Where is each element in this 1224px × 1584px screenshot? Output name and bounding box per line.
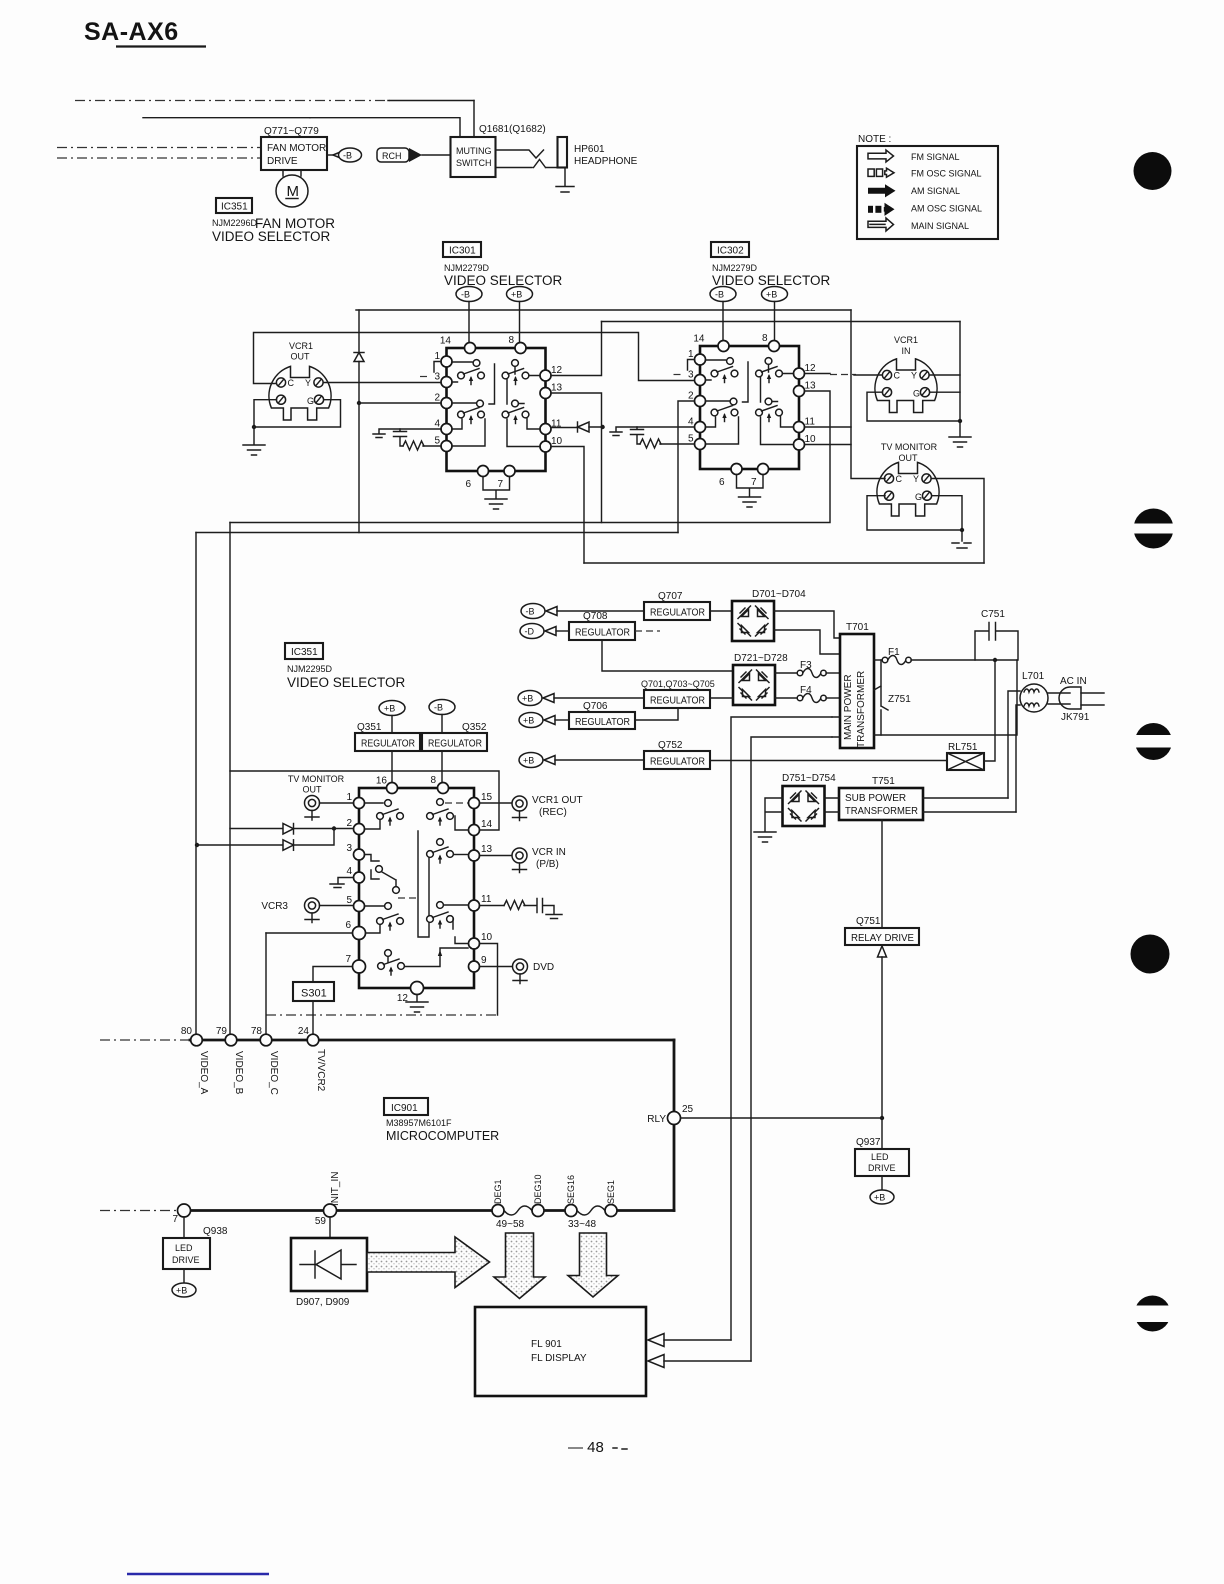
svg-text:M: M bbox=[287, 183, 300, 200]
resistor capacitor at pin 11 bbox=[480, 899, 563, 919]
pin SEG16 bbox=[565, 1205, 577, 1217]
pin 59 INIT_IN bbox=[324, 1204, 337, 1217]
jack VCR IN (P/B) rca bbox=[480, 847, 566, 873]
svg-text:8: 8 bbox=[430, 775, 436, 786]
node -B rail to Q707 bbox=[521, 604, 644, 619]
display FL901 FL DISPLAY bbox=[475, 1307, 646, 1396]
node -B above IC301 bbox=[456, 287, 482, 343]
svg-text:Q708: Q708 bbox=[583, 611, 608, 622]
node junction bbox=[960, 528, 964, 532]
node +B above IC301 bbox=[507, 287, 533, 343]
connector VCR1 OUT s-video bbox=[269, 341, 331, 420]
rectifier D721~D728 bbox=[733, 653, 788, 705]
label NJM2279D video selector 2 bbox=[712, 263, 831, 288]
pin DEG10 bbox=[532, 1205, 544, 1217]
wire bus y523 bbox=[230, 391, 830, 523]
wire IC302 pin12 to VCR1 IN C bbox=[805, 373, 831, 375]
node +B above Q351 bbox=[379, 701, 405, 734]
wire VCR1 OUT enclosure bbox=[254, 333, 695, 384]
wire top rail 2 solid bbox=[310, 118, 460, 137]
registration mark 3 bbox=[1130, 723, 1178, 760]
svg-text:15: 15 bbox=[481, 792, 493, 803]
wire IC301 pin1 stub bbox=[434, 362, 441, 373]
rectifier D751~D754 bbox=[782, 773, 836, 826]
svg-text:+B: +B bbox=[874, 1193, 885, 1203]
svg-text:78: 78 bbox=[251, 1026, 263, 1037]
pin 7 bbox=[178, 1204, 191, 1217]
svg-text:INIT_IN: INIT_IN bbox=[330, 1172, 341, 1206]
svg-text:-B: -B bbox=[715, 290, 724, 300]
svg-text:VIDEO_A: VIDEO_A bbox=[198, 1051, 209, 1095]
connector AC IN plug bbox=[1048, 676, 1104, 723]
svg-text:C751: C751 bbox=[981, 609, 1005, 620]
svg-text:10: 10 bbox=[481, 932, 493, 943]
rectifier D701~D704 bbox=[732, 589, 806, 641]
wire TV MONITOR OUT pin2 loop bbox=[867, 496, 962, 541]
IC351 interior switches bbox=[365, 799, 469, 975]
node junction bbox=[958, 419, 962, 423]
svg-text:RL751: RL751 bbox=[948, 742, 978, 753]
wire vertical x731 FL feed bbox=[731, 717, 832, 1340]
wire Q708 drop to lower bridge bbox=[602, 640, 733, 671]
svg-text:FM OSC SIGNAL: FM OSC SIGNAL bbox=[911, 169, 982, 179]
pin RLY 25 bbox=[668, 1112, 681, 1125]
registration mark 2 bbox=[1128, 509, 1179, 549]
legend FM SIGNAL open arrow bbox=[868, 150, 894, 162]
wire vertical x266 video_c bbox=[265, 933, 267, 1035]
node +B rail to Q706 bbox=[519, 713, 569, 728]
legend MAIN SIGNAL bbox=[868, 218, 894, 231]
svg-text:MICROCOMPUTER: MICROCOMPUTER bbox=[386, 1129, 499, 1143]
diode D301 on vertical rail bbox=[354, 353, 364, 362]
svg-text:DVD: DVD bbox=[533, 962, 554, 973]
svg-text:IN: IN bbox=[902, 346, 911, 356]
wire FL feed arrowheads bbox=[648, 1334, 751, 1368]
node RCH signal tag bbox=[377, 148, 451, 162]
svg-text:-B: -B bbox=[343, 151, 352, 161]
svg-text:Q751: Q751 bbox=[856, 916, 881, 927]
IC302 boxed label bbox=[711, 242, 749, 257]
wire bottom bus dash-dot left bbox=[100, 1210, 180, 1212]
IC301 boxed label bbox=[443, 242, 481, 257]
IC351 pins right bbox=[469, 798, 480, 809]
title underline bbox=[116, 45, 206, 47]
svg-text:REGULATOR: REGULATOR bbox=[361, 739, 415, 750]
svg-text:NJM2279D: NJM2279D bbox=[712, 263, 758, 273]
svg-text:OUT: OUT bbox=[899, 453, 919, 463]
IC351 pins top bbox=[387, 783, 398, 794]
wire top bus dash-dot left bbox=[100, 1039, 190, 1041]
transistor block Q701,Q703~Q705 regulator bbox=[641, 679, 715, 708]
svg-text:TRANSFORMER: TRANSFORMER bbox=[856, 671, 867, 748]
svg-text:L701: L701 bbox=[1022, 671, 1045, 682]
wire break squiggle 2 bbox=[577, 1206, 605, 1215]
transistor block Q771~Q779 fan motor drive bbox=[261, 126, 327, 170]
wire VCR1 IN pin2 loop bbox=[867, 392, 960, 421]
capacitor + ground network at IC302 pins 4,5 bbox=[610, 427, 695, 448]
svg-text:VCR3: VCR3 bbox=[261, 901, 288, 912]
svg-text:HEADPHONE: HEADPHONE bbox=[574, 156, 638, 167]
svg-text:MAIN SIGNAL: MAIN SIGNAL bbox=[911, 221, 969, 231]
svg-text:LED: LED bbox=[175, 1243, 193, 1253]
svg-text:REGULATOR: REGULATOR bbox=[650, 757, 705, 768]
svg-text:AC IN: AC IN bbox=[1060, 676, 1087, 687]
svg-text:VIDEO SELECTOR: VIDEO SELECTOR bbox=[287, 675, 406, 690]
IC351 pin bottom 12 + ground bbox=[411, 982, 424, 995]
svg-text:RLY: RLY bbox=[647, 1114, 666, 1125]
transistor block Q937 led drive bbox=[855, 1137, 909, 1176]
diode pair feeding pin 2 bbox=[195, 824, 354, 851]
node -B above Q352 bbox=[429, 700, 455, 734]
svg-text:AM SIGNAL: AM SIGNAL bbox=[911, 186, 960, 196]
svg-text:VCR1: VCR1 bbox=[894, 335, 918, 345]
wire vertical x196 video_a bbox=[195, 533, 197, 1035]
svg-text:VIDEO_C: VIDEO_C bbox=[268, 1051, 279, 1095]
svg-text:NOTE :: NOTE : bbox=[858, 134, 891, 145]
wire microcomputer top bus bbox=[190, 1039, 674, 1042]
ground dashes below TV MONITOR OUT bbox=[952, 543, 971, 548]
op-amp IC351 NJM2295D body bbox=[359, 788, 474, 988]
svg-text:TV/VCR2: TV/VCR2 bbox=[315, 1049, 326, 1092]
svg-text:M38957M6101F: M38957M6101F bbox=[386, 1118, 452, 1128]
wire IC302 pin11 to x851 bbox=[805, 426, 852, 428]
svg-text:VCR1: VCR1 bbox=[289, 341, 313, 351]
svg-text:DEG10: DEG10 bbox=[533, 1174, 543, 1204]
svg-text:7: 7 bbox=[345, 954, 351, 965]
label NJM2279D video selector bbox=[444, 263, 563, 288]
wire vertical rail x358 bbox=[358, 310, 360, 533]
svg-text:VIDEO SELECTOR: VIDEO SELECTOR bbox=[444, 273, 563, 288]
svg-text:Q701,Q703~Q705: Q701,Q703~Q705 bbox=[641, 679, 715, 689]
switch S301 bbox=[293, 967, 353, 1035]
capacitor + ground network at IC301 pins 4,5 bbox=[373, 429, 441, 450]
node junction bbox=[252, 425, 256, 429]
transformer T701 main power bbox=[840, 622, 874, 748]
svg-text:NJM2296D: NJM2296D bbox=[212, 218, 258, 228]
label NJM2295D video selector bbox=[287, 664, 406, 690]
svg-text:+B: +B bbox=[511, 290, 522, 300]
wire IC301 pin2 to rail bbox=[359, 402, 441, 404]
svg-text:HP601: HP601 bbox=[574, 144, 605, 155]
svg-text:IC351: IC351 bbox=[221, 202, 248, 213]
transistor block Q706 regulator bbox=[569, 701, 678, 729]
svg-text:SEG16: SEG16 bbox=[566, 1175, 576, 1204]
svg-text:DRIVE: DRIVE bbox=[172, 1255, 200, 1265]
jack DVD rca bbox=[480, 959, 555, 984]
connector TV MONITOR OUT s-video bbox=[877, 442, 939, 516]
svg-text:Q771~Q779: Q771~Q779 bbox=[264, 126, 319, 137]
svg-text:MAIN POWER: MAIN POWER bbox=[843, 674, 854, 740]
svg-text:Q752: Q752 bbox=[658, 740, 683, 751]
svg-text:3: 3 bbox=[346, 843, 352, 854]
ground at IC351 pin4 bbox=[330, 878, 354, 888]
svg-text:DRIVE: DRIVE bbox=[868, 1163, 896, 1173]
pin 24 bbox=[307, 1034, 319, 1046]
wire bridge D701 to T701 bbox=[774, 611, 840, 654]
blue pen mark bottom bbox=[127, 1573, 269, 1575]
pin 80 bbox=[191, 1034, 203, 1046]
IC901 boxed label bbox=[384, 1098, 428, 1115]
svg-text:-B: -B bbox=[434, 703, 443, 713]
svg-text:OUT: OUT bbox=[303, 785, 323, 795]
wire bus y563 bbox=[584, 562, 984, 564]
wire break squiggle bbox=[504, 1206, 532, 1215]
fuse F1 bbox=[874, 647, 1017, 665]
IC351 boxed label (fan motor section) bbox=[216, 198, 252, 213]
wire vertical x601 lower + pin13 bbox=[551, 393, 602, 523]
svg-text:IC302: IC302 bbox=[717, 246, 744, 257]
svg-text:6: 6 bbox=[345, 920, 351, 931]
svg-text:+B: +B bbox=[766, 290, 777, 300]
svg-text:-B: -B bbox=[461, 290, 470, 300]
diode block D907, D909 bbox=[291, 1217, 367, 1308]
wire IC302 pin1 stub bbox=[688, 360, 695, 371]
svg-text:RELAY DRIVE: RELAY DRIVE bbox=[851, 933, 914, 944]
wire D751 left to ground bbox=[765, 798, 783, 831]
svg-text:T701: T701 bbox=[846, 622, 869, 633]
wire L701 left connections bbox=[1008, 691, 1020, 812]
diode D302 pointing left bbox=[551, 422, 605, 432]
svg-text:TV MONITOR: TV MONITOR bbox=[288, 774, 345, 784]
pin DEG1 bbox=[492, 1205, 504, 1217]
label M38957M6101F microcomputer bbox=[386, 1118, 499, 1143]
svg-text:NJM2279D: NJM2279D bbox=[444, 263, 490, 273]
svg-text:IC301: IC301 bbox=[449, 246, 476, 257]
svg-text:+B: +B bbox=[523, 756, 534, 766]
svg-text:NJM2295D: NJM2295D bbox=[287, 664, 333, 674]
wire VCR1 IN Y to enclosure bbox=[930, 374, 961, 376]
transistor block Q707 regulator bbox=[644, 591, 710, 620]
wire VCR1 OUT pin2 loop to ground bbox=[254, 400, 341, 427]
svg-text:SUB POWER: SUB POWER bbox=[845, 793, 906, 804]
svg-text:2: 2 bbox=[346, 818, 352, 829]
svg-text:D907, D909: D907, D909 bbox=[296, 1297, 350, 1308]
svg-text:Q938: Q938 bbox=[203, 1226, 228, 1237]
surge absorber Z751 bbox=[874, 660, 911, 735]
ground VCR1 OUT bbox=[253, 427, 255, 444]
node junction pin2 rail bbox=[357, 401, 361, 405]
node -B at fan motor drive bbox=[327, 148, 362, 162]
svg-text:49~58: 49~58 bbox=[496, 1219, 525, 1230]
wire y735 secondary line bbox=[874, 660, 1017, 735]
node +B below Q937 bbox=[870, 1176, 894, 1204]
motor M751 bbox=[276, 170, 308, 207]
svg-text:59: 59 bbox=[315, 1216, 327, 1227]
transformer T751 sub power bbox=[825, 776, 1017, 820]
IC351 boxed label bbox=[285, 643, 323, 659]
arrow right from D907 to FL bbox=[367, 1237, 490, 1288]
svg-text:+B: +B bbox=[523, 716, 534, 726]
wire rail1 vertical drop to muting switch bbox=[473, 101, 475, 138]
wire T751 bottom to relay drive bbox=[881, 820, 883, 928]
wire vertical x584 + IC301 pin10 bbox=[551, 447, 584, 564]
svg-text:16: 16 bbox=[376, 776, 388, 787]
svg-text:S301: S301 bbox=[301, 988, 327, 1000]
wire Q701 to bridge bbox=[710, 697, 733, 699]
wire Q707 to bridge bbox=[710, 610, 732, 612]
wire top rail 2 bbox=[143, 117, 310, 119]
svg-text:VCR1 OUT: VCR1 OUT bbox=[532, 795, 583, 806]
transistor block Q752 regulator bbox=[644, 740, 710, 769]
NOTE legend box bbox=[857, 134, 998, 239]
svg-text:(REC): (REC) bbox=[539, 807, 567, 818]
fuse F3 bbox=[775, 660, 840, 678]
jack TV MONITOR OUT rca bbox=[288, 774, 354, 820]
svg-text:T751: T751 bbox=[872, 776, 895, 787]
wire bus y533 bbox=[196, 532, 678, 534]
transistor block Q751 relay drive bbox=[845, 916, 919, 945]
wire RLY to relay drive rail bbox=[681, 1117, 883, 1119]
wire top rail 1 (dash-dot) bbox=[75, 100, 390, 102]
registration mark 5 bbox=[1129, 1296, 1177, 1332]
wire top rail y310 bbox=[356, 309, 851, 311]
op-amp IC302 NJM2279D bbox=[688, 333, 816, 507]
transistor block Q351 regulator bbox=[355, 722, 420, 783]
svg-text:D721~D728: D721~D728 bbox=[734, 653, 788, 664]
svg-text:TRANSFORMER: TRANSFORMER bbox=[845, 806, 918, 817]
legend AM OSC SIGNAL bbox=[868, 206, 873, 213]
registration mark 1 bbox=[1134, 152, 1172, 190]
svg-text:REGULATOR: REGULATOR bbox=[650, 608, 705, 619]
node -D rail to Q708 bbox=[520, 624, 569, 639]
svg-text:-B: -B bbox=[526, 607, 535, 617]
svg-text:1: 1 bbox=[346, 792, 352, 803]
svg-text:80: 80 bbox=[181, 1026, 193, 1037]
svg-text:D701~D704: D701~D704 bbox=[752, 589, 806, 600]
wire Q752 to RL751 bbox=[710, 760, 947, 762]
svg-text:Q351: Q351 bbox=[357, 722, 382, 733]
svg-text:LED: LED bbox=[871, 1152, 889, 1162]
svg-text:VIDEO_B: VIDEO_B bbox=[233, 1051, 244, 1095]
svg-text:SA-AX6: SA-AX6 bbox=[84, 18, 179, 46]
svg-text:IC901: IC901 bbox=[391, 1103, 418, 1114]
wire Y pin to IC301 pin3 bbox=[324, 382, 442, 384]
node +B above IC302 bbox=[762, 287, 788, 341]
wire TV MONITOR OUT Y to right bbox=[932, 479, 984, 564]
svg-text:Z751: Z751 bbox=[888, 694, 911, 705]
svg-text:-D: -D bbox=[525, 627, 535, 637]
connector VCR1 IN s-video bbox=[875, 335, 937, 413]
svg-text:+B: +B bbox=[522, 694, 533, 704]
svg-text:MUTING: MUTING bbox=[456, 146, 492, 156]
svg-text:SWITCH: SWITCH bbox=[456, 158, 492, 168]
jack VCR1 OUT (REC) rca bbox=[480, 795, 583, 821]
svg-text:Q937: Q937 bbox=[856, 1137, 881, 1148]
wire fan drive input rail a (dash-dot) bbox=[57, 147, 261, 149]
wire relay drive down with arrow bbox=[878, 946, 887, 1149]
svg-text:D751~D754: D751~D754 bbox=[782, 773, 836, 784]
svg-text:IC351: IC351 bbox=[291, 647, 318, 658]
transistor block Q938 led drive bbox=[163, 1217, 228, 1297]
arrow down SEG to FL bbox=[568, 1233, 618, 1297]
svg-text:FL 901: FL 901 bbox=[531, 1339, 562, 1350]
arrow down DEG to FL bbox=[494, 1233, 545, 1299]
svg-text:REGULATOR: REGULATOR bbox=[575, 628, 630, 639]
wire pin6 to x266 bbox=[266, 932, 353, 934]
connector HP601 headphone jack bbox=[556, 137, 638, 192]
svg-text:FM SIGNAL: FM SIGNAL bbox=[911, 152, 960, 162]
wire x851 rail to TV MONITOR OUT C bbox=[851, 310, 885, 479]
svg-text:FAN MOTOR: FAN MOTOR bbox=[267, 143, 326, 154]
transistor block Q708 regulator bbox=[569, 611, 635, 640]
node +B rail to Q701 bbox=[518, 691, 644, 706]
svg-text:OUT: OUT bbox=[291, 352, 311, 362]
wire Q708 dashes right bbox=[635, 630, 660, 632]
svg-text:Q1681(Q1682): Q1681(Q1682) bbox=[479, 124, 546, 135]
label NJM2296D fan motor video selector bbox=[212, 216, 335, 244]
svg-text:RCH: RCH bbox=[382, 151, 402, 161]
svg-text:VCR IN: VCR IN bbox=[532, 847, 566, 858]
svg-text:13: 13 bbox=[481, 844, 493, 855]
svg-text:JK791: JK791 bbox=[1061, 712, 1090, 723]
transistor block Q1681 muting switch bbox=[451, 124, 546, 177]
wire T701 left taps bbox=[832, 717, 840, 737]
wire muting switch to headphone with contacts bbox=[496, 150, 558, 168]
svg-text:AM OSC SIGNAL: AM OSC SIGNAL bbox=[911, 204, 982, 214]
svg-text:FL DISPLAY: FL DISPLAY bbox=[531, 1353, 587, 1364]
wire IC302 pin10 bbox=[805, 444, 852, 446]
pin 79 bbox=[225, 1034, 237, 1046]
wire microcomputer right edge bbox=[673, 1040, 676, 1211]
IC351 pins left bbox=[354, 798, 365, 809]
wire microcomputer bottom bus bbox=[180, 1209, 674, 1212]
svg-text:11: 11 bbox=[481, 894, 492, 905]
relay RL751 bbox=[947, 660, 995, 770]
svg-text:25: 25 bbox=[682, 1104, 694, 1115]
svg-text:Q706: Q706 bbox=[583, 701, 608, 712]
svg-text:9: 9 bbox=[481, 955, 487, 966]
svg-text:7: 7 bbox=[172, 1214, 178, 1225]
jack VCR3 rca bbox=[261, 898, 353, 923]
fuse F4 bbox=[775, 685, 840, 703]
svg-text:4: 4 bbox=[346, 866, 352, 877]
svg-text:REGULATOR: REGULATOR bbox=[575, 717, 630, 728]
wire vertical x751 FL feed bbox=[751, 737, 832, 1361]
wire pin10 loop bbox=[480, 944, 498, 1016]
svg-text:TV MONITOR: TV MONITOR bbox=[881, 442, 938, 452]
svg-text:— 48: — 48 bbox=[568, 1439, 604, 1456]
svg-text:79: 79 bbox=[216, 1026, 228, 1037]
svg-text:Q707: Q707 bbox=[658, 591, 683, 602]
legend AM SIGNAL filled arrow bbox=[868, 184, 896, 197]
registration mark 4 bbox=[1131, 935, 1170, 974]
pin SEG1 bbox=[605, 1205, 617, 1217]
svg-text:24: 24 bbox=[298, 1026, 310, 1037]
wire top rail 1 solid part bbox=[388, 100, 474, 102]
svg-text:REGULATOR: REGULATOR bbox=[428, 739, 482, 750]
node junction F1/C751 bbox=[993, 658, 997, 662]
wire rail y322 bbox=[602, 321, 961, 323]
svg-text:VIDEO SELECTOR: VIDEO SELECTOR bbox=[212, 229, 331, 244]
wire fan drive input rail b (dash-dot) bbox=[57, 157, 261, 159]
svg-text:DEG1: DEG1 bbox=[493, 1179, 503, 1204]
wire vertical x601 upper + pin12 bbox=[551, 322, 602, 376]
capacitor C751 bbox=[975, 609, 1018, 660]
svg-text:+B: +B bbox=[384, 704, 395, 714]
transistor block Q352 regulator bbox=[422, 722, 487, 783]
svg-text:SEG1: SEG1 bbox=[606, 1180, 616, 1204]
svg-text:REGULATOR: REGULATOR bbox=[650, 696, 705, 707]
svg-text:VIDEO SELECTOR: VIDEO SELECTOR bbox=[712, 273, 831, 288]
node +B rail to Q752 bbox=[519, 753, 644, 768]
svg-text:+B: +B bbox=[176, 1286, 187, 1296]
svg-text:33~48: 33~48 bbox=[568, 1219, 597, 1230]
svg-text:(P/B): (P/B) bbox=[536, 859, 559, 870]
svg-text:5: 5 bbox=[346, 895, 352, 906]
inductor L701 line filter bbox=[1020, 671, 1048, 712]
wire VCR1 IN enclosure right edge + ground bbox=[959, 322, 961, 437]
pin 78 bbox=[260, 1034, 272, 1046]
